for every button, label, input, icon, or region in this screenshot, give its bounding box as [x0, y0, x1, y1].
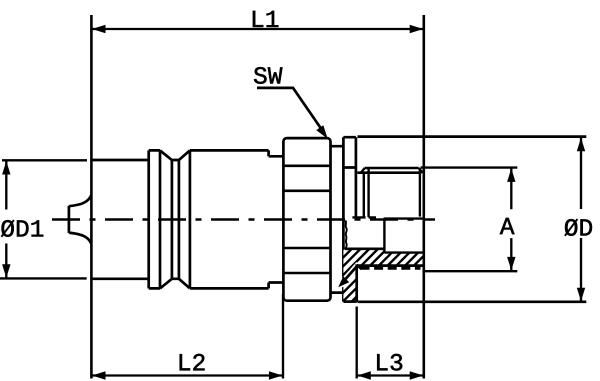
L3 left arrowhead [357, 371, 371, 379]
L2 left arrowhead [92, 371, 106, 379]
SW leader arrowhead [316, 125, 328, 139]
label L2 [180, 354, 205, 370]
OD top arrowhead [577, 138, 585, 152]
L3 left extension line [356, 307, 358, 379]
washer flange [343, 137, 356, 301]
neck between nut and washer [331, 146, 344, 292]
L3 right arrowhead [410, 371, 424, 379]
seal leader arrowhead [338, 276, 349, 287]
thread crest line [365, 167, 419, 170]
L1 left arrowhead [92, 25, 106, 33]
end chamfer circle edge [419, 169, 421, 217]
OD bottom arrowhead [577, 288, 585, 302]
corner chamfer [357, 265, 362, 269]
body face / L1-L2 extension line [90, 15, 93, 379]
female block bottom edge [358, 300, 587, 303]
label L3 [377, 354, 402, 371]
seal gap white stripe [340, 264, 359, 285]
small cylinder bottom edge [91, 277, 148, 280]
break line squiggle [345, 221, 347, 249]
A extension lines [421, 168, 518, 272]
A bottom arrowhead [507, 257, 515, 271]
valve tip face [68, 206, 71, 233]
neck before hex [269, 156, 283, 282]
dimension L2 line [91, 374, 283, 376]
hex nut facet lines [283, 166, 331, 273]
L2 right arrowhead [269, 371, 283, 379]
thread root line [357, 171, 421, 174]
OD1 extension lines [0, 160, 87, 278]
runout feet [352, 216, 376, 218]
centerline axis [52, 218, 435, 220]
valve tip top curve [69, 195, 92, 206]
section band bottom line [357, 264, 424, 267]
ball groove [160, 150, 190, 288]
OD1 top arrowhead [2, 161, 10, 175]
label L1 [253, 11, 278, 27]
hatch section area [343, 249, 423, 302]
dimension A line [510, 169, 512, 271]
label OD1 [1, 220, 43, 237]
small cylinder top edge [91, 159, 148, 162]
bore line (section) [345, 247, 385, 250]
big cylinder [190, 150, 269, 288]
L1 right arrowhead [410, 25, 424, 33]
thread runout verticals [364, 168, 369, 217]
dimension OD1 line [5, 161, 7, 279]
OD1 bottom arrowhead [2, 264, 10, 278]
label SW [254, 67, 282, 84]
washer section bottom edge [343, 300, 356, 303]
female thread dashed line [361, 267, 421, 270]
port face lower [355, 264, 358, 302]
thread end face / L1-L3 extension line [422, 15, 425, 379]
seal leader shaft [342, 266, 357, 283]
label A [500, 218, 515, 234]
dimension L3 line [357, 374, 424, 376]
counterbore box [384, 219, 424, 253]
valve tip bottom curve [69, 233, 92, 244]
female block top edge [358, 135, 587, 138]
dimension L1 line [91, 28, 423, 30]
thread end chamfers [361, 168, 423, 173]
label OD [565, 219, 592, 236]
SW leader line [257, 88, 323, 132]
dimension OD line [580, 138, 582, 302]
A top arrowhead [507, 168, 515, 182]
hex nut body [283, 138, 330, 301]
L2 right extension line [282, 294, 284, 379]
locking flange [149, 150, 160, 288]
